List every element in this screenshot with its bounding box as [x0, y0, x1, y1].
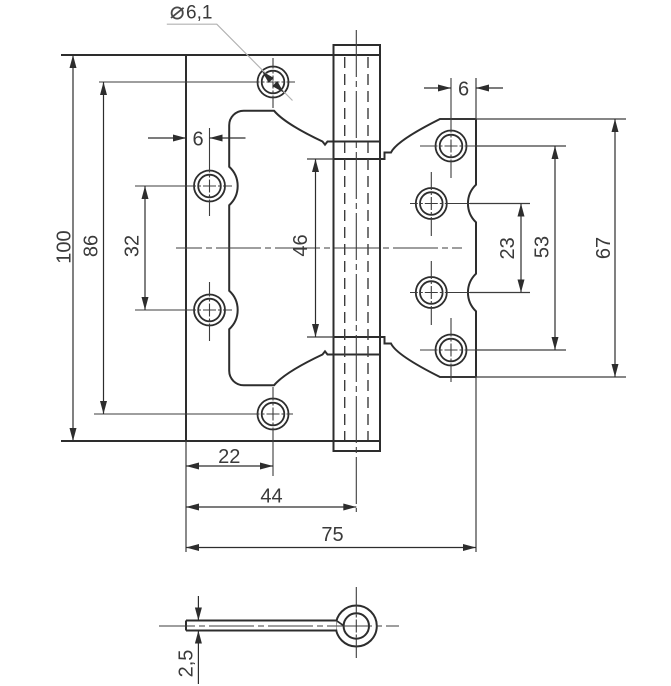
- svg-text:2,5: 2,5: [176, 650, 198, 678]
- 67-dim bottom extension (right leaf bottom edge extended): [440, 376, 626, 378]
- hole H8 horizontal centre line: [420, 349, 566, 351]
- arrowheads dim 22: [186, 463, 199, 470]
- hole H4 vertical centre line / 22-dim extension: [272, 387, 274, 476]
- hole H6 right-upper-mid (inner): [420, 192, 443, 215]
- hole H6 vertical centre line: [430, 172, 432, 236]
- dimension line 6 (right): [424, 87, 503, 89]
- 46-dim bottom extension line: [307, 336, 334, 338]
- left leaf left edge: [185, 55, 187, 441]
- hinge pin axis centre line: [355, 30, 357, 512]
- side view: leaf plate (white fill over circle): [187, 621, 337, 629]
- side view: knuckle outer circle: [336, 606, 377, 647]
- arrowheads dim 6 left: [173, 135, 186, 142]
- left leaf edge crossing knuckle (bottom): [334, 354, 381, 356]
- hole H8 vertical centre line: [450, 318, 452, 382]
- hole H3 vertical centre line: [209, 282, 211, 341]
- arrowheads dim 53: [552, 146, 559, 159]
- hole H7 right-lower-mid (inner): [420, 281, 443, 304]
- hole H1 horizontal centre line / 86-dim extension: [99, 81, 295, 83]
- hole H2 left-mid-upper (outer): [194, 171, 225, 202]
- hole H3 horizontal centre line / 32-dim extension: [135, 309, 232, 311]
- arrowheads dim 86: [100, 82, 107, 95]
- 53-dim top extension from hole H5: [476, 145, 566, 147]
- 23-dim bottom extension from hole H7: [470, 292, 530, 294]
- hole H7 right-lower-mid (outer): [416, 277, 447, 308]
- hole H8 right-bottom (outer): [436, 335, 467, 366]
- hole H2 horizontal centre line / 32-dim extension: [135, 185, 232, 187]
- hole H5 horizontal centre line: [420, 145, 566, 147]
- svg-text:23: 23: [497, 237, 519, 259]
- 46-dim top extension line: [307, 158, 334, 160]
- hole H5 right-top (outer): [436, 131, 467, 162]
- hole H8 right-bottom (inner): [440, 339, 463, 362]
- knuckle hidden pin-hole lines (dashed): [345, 57, 368, 440]
- hole H5 right-top (inner): [440, 135, 463, 158]
- svg-text:22: 22: [218, 446, 240, 468]
- svg-text:75: 75: [321, 524, 343, 546]
- dimension line 46: [315, 159, 317, 337]
- svg-text:67: 67: [593, 237, 615, 259]
- hole H5 vertical centre line / 6-dim extension: [450, 78, 452, 178]
- hole H1 vertical centre line: [272, 58, 274, 108]
- svg-text:44: 44: [260, 486, 282, 508]
- dimension line 22: [186, 465, 273, 467]
- 53-dim bottom extension from hole H8: [476, 349, 566, 351]
- hole H4 bottom-left (outer): [258, 399, 289, 430]
- dimension line 44: [186, 506, 356, 508]
- 22/44/75-dim left extension (left edge extended down): [185, 441, 187, 552]
- arrowheads dim 100: [70, 55, 77, 68]
- arrowheads dim 6 right: [438, 85, 451, 92]
- hole H3 left-mid-lower (inner): [198, 299, 221, 322]
- hole H4 horizontal centre line / 86-dim extension: [94, 413, 293, 415]
- dimension line 23: [520, 204, 522, 293]
- hole H4 bottom-left (inner): [262, 403, 285, 426]
- hole H1 top-left (countersink outer): [258, 67, 289, 98]
- 23-dim top extension from hole H6: [470, 203, 530, 205]
- side view: pin hole inner circle: [344, 613, 369, 638]
- svg-text:6: 6: [192, 129, 203, 151]
- svg-text:32: 32: [122, 235, 144, 257]
- dimension line 53: [554, 146, 556, 350]
- arrowheads dim 32: [142, 186, 149, 199]
- side view horizontal centre line: [159, 625, 399, 627]
- svg-text:100: 100: [54, 230, 76, 263]
- left leaf top edge (with extension to 100-dim): [61, 54, 380, 56]
- 75-dim right extension (right edge extended down): [475, 377, 477, 552]
- diameter symbol of callout: [171, 7, 184, 18]
- horizontal centre line of hinge: [176, 247, 462, 249]
- left leaf bottom edge (with extension to 100-dim): [61, 440, 380, 442]
- side view: curl notch between leaf and barrel: [337, 621, 344, 626]
- hole H7 vertical centre line: [430, 261, 432, 325]
- hole H1 top-left (inner): [262, 71, 285, 94]
- right leaf top step edge crossing knuckle and S-curve: [334, 119, 477, 159]
- right leaf bottom step edge crossing knuckle and S-curve: [334, 337, 477, 377]
- dimension line 6 (left): [148, 137, 246, 139]
- 67-dim top extension (right leaf top edge extended): [440, 118, 626, 120]
- 6-dim right extension above right edge: [475, 78, 477, 119]
- arrowheads dim 75: [186, 544, 199, 551]
- left leaf edge crossing knuckle (top): [334, 141, 381, 143]
- hole H7 horizontal centre line: [410, 292, 530, 294]
- svg-text:46: 46: [290, 234, 312, 256]
- arrowheads dim 67: [612, 119, 619, 132]
- dimension line 75: [186, 547, 476, 549]
- arrowheads dim 44: [186, 504, 199, 511]
- arrowheads dim 46: [312, 159, 319, 172]
- svg-text:6: 6: [458, 79, 469, 101]
- left leaf cutout contour (recess for mating leaf): [229, 111, 333, 386]
- arrowheads dim 23: [518, 204, 525, 217]
- right leaf right edge with scalloped notches: [468, 119, 476, 377]
- dimension line 32: [144, 186, 146, 310]
- hole H2 vertical centre line / 6-dim extension: [209, 128, 211, 216]
- hole H6 horizontal centre line: [410, 203, 530, 205]
- svg-text:86: 86: [81, 235, 103, 257]
- hole H3 left-mid-lower (outer): [194, 295, 225, 326]
- dimension line 86: [103, 82, 105, 414]
- hole H2 left-mid-upper (inner): [198, 175, 221, 198]
- arrowheads dim 2,5: [195, 608, 202, 621]
- hole H6 right-upper-mid (outer): [416, 188, 447, 219]
- dimension line 100: [72, 55, 74, 441]
- leader line for diameter callout: [167, 24, 293, 100]
- svg-text:53: 53: [532, 236, 554, 258]
- diameter arrowheads across hole H1: [260, 69, 274, 83]
- side view vertical centre line: [355, 587, 357, 658]
- knuckle (barrel) outline: [334, 45, 381, 451]
- svg-text:6,1: 6,1: [186, 2, 212, 23]
- dimension line 2,5 (plate thickness): [197, 596, 199, 684]
- dimension line 67: [614, 119, 616, 377]
